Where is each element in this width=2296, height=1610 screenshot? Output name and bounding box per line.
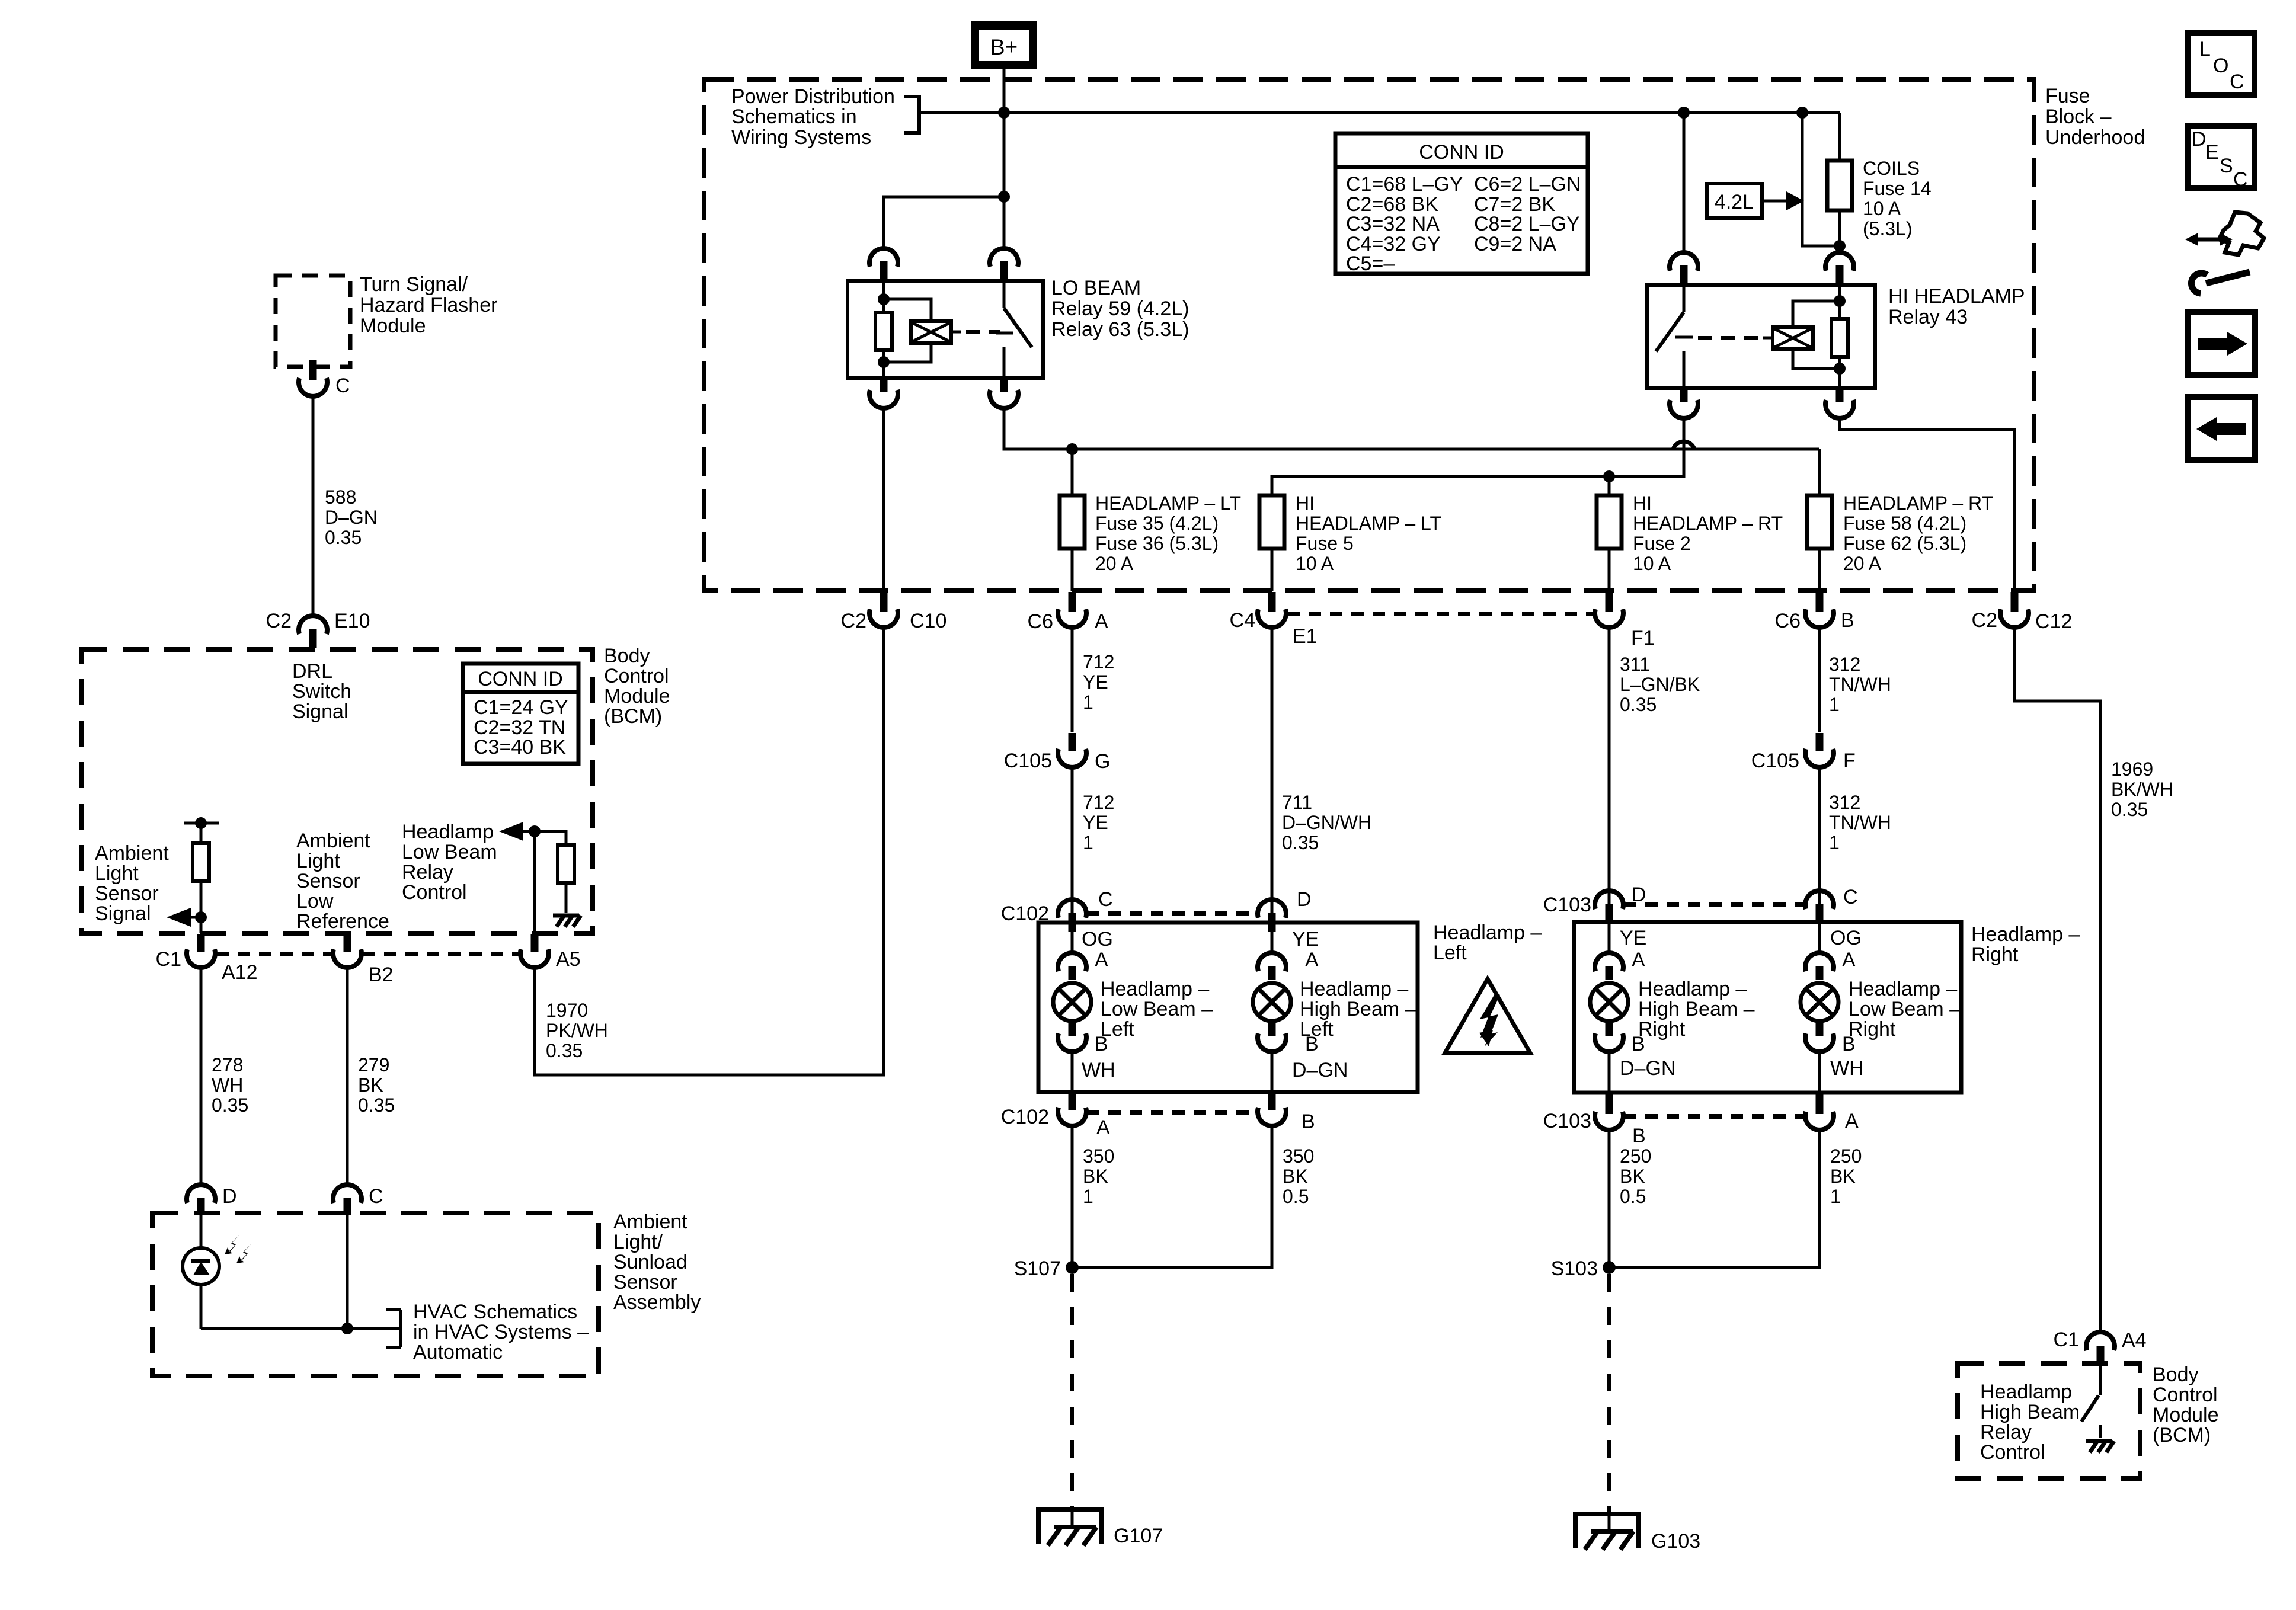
svg-text:C6: C6 <box>1775 610 1801 632</box>
label 350 BK 1 <box>1083 1145 1114 1207</box>
svg-text:High Beam –: High Beam – <box>1638 998 1755 1020</box>
wire 250 BK 0.5 <box>1608 1131 1611 1267</box>
svg-text:(BCM): (BCM) <box>604 705 662 728</box>
label Headlamp - Right <box>1971 923 2080 966</box>
svg-text:Headlamp –: Headlamp – <box>1101 978 1209 1000</box>
svg-text:350: 350 <box>1083 1145 1114 1167</box>
svg-text:B: B <box>1842 1033 1856 1055</box>
wire 312 segment 2 <box>1818 769 1821 904</box>
wire 278 WH 0.35 <box>200 969 203 1184</box>
svg-text:OG: OG <box>1830 927 1862 949</box>
connector C105 F <box>1751 733 1856 772</box>
wire fuse 2 stub <box>1608 476 1611 495</box>
svg-text:278: 278 <box>212 1054 243 1076</box>
label 712 YE 1 lower <box>1083 792 1114 853</box>
svg-text:312: 312 <box>1829 792 1860 813</box>
ground BCM high beam internal <box>2086 1441 2114 1452</box>
svg-text:BK: BK <box>1620 1166 1645 1187</box>
connector LO relay pin 2 top <box>990 248 1018 279</box>
node S107 <box>1014 1257 1079 1280</box>
node HI coil bottom <box>1834 363 1846 375</box>
svg-text:PK/WH: PK/WH <box>546 1020 608 1041</box>
label 350 BK 0.5 <box>1283 1145 1314 1207</box>
svg-text:S: S <box>2220 155 2233 177</box>
connector lamp B high-left <box>1258 1022 1319 1092</box>
svg-text:C: C <box>2233 168 2248 191</box>
svg-text:DRL: DRL <box>292 660 332 683</box>
svg-text:(5.3L): (5.3L) <box>1863 218 1913 239</box>
label Headlamp - Low Beam - Right <box>1849 978 1961 1041</box>
node HI coil top <box>1834 295 1846 307</box>
svg-text:A: A <box>1096 1116 1110 1139</box>
svg-text:A: A <box>1095 949 1108 971</box>
svg-text:F: F <box>1843 750 1856 772</box>
svg-text:YE: YE <box>1083 812 1108 833</box>
lamp Headlamp Low Beam Left <box>1053 983 1091 1021</box>
fuse block underhood dashed box <box>704 79 2034 591</box>
connector lamp B low-left <box>1058 1022 1108 1092</box>
svg-text:0.5: 0.5 <box>1283 1186 1309 1207</box>
svg-text:712: 712 <box>1083 651 1114 673</box>
label fuse 5 <box>1296 492 1441 574</box>
svg-text:C105: C105 <box>1751 750 1799 772</box>
svg-text:Switch: Switch <box>292 680 351 703</box>
svg-text:C2: C2 <box>266 610 292 632</box>
svg-text:Block –: Block – <box>2045 105 2112 128</box>
wire coils fuse bottom <box>1838 210 1841 251</box>
wire HI switch output to headlamp fuses <box>1272 419 1684 495</box>
wire B+ drop <box>1003 69 1006 113</box>
connector C103 C <box>1805 886 1858 924</box>
wire 588 D-GN 0.35 <box>312 398 315 614</box>
label Power Distribution Schematics in Wiring Systems <box>731 85 895 149</box>
node rail junction coils bypass <box>1796 107 1808 119</box>
svg-text:HI HEADLAMP: HI HEADLAMP <box>1888 285 2025 308</box>
svg-text:G: G <box>1095 750 1110 773</box>
connector B2 <box>333 934 394 986</box>
resistor ambient light sensor pullup <box>184 817 219 933</box>
svg-text:HEADLAMP – LT: HEADLAMP – LT <box>1296 513 1441 534</box>
fuse HEADLAMP-RT Fuse 58/62 <box>1807 449 1832 591</box>
svg-text:0.35: 0.35 <box>212 1094 248 1116</box>
svg-text:BK/WH: BK/WH <box>2111 779 2173 800</box>
svg-text:C5=–: C5=– <box>1346 252 1395 275</box>
connector C1/A4 <box>2054 1329 2147 1363</box>
svg-text:C3=40 BK: C3=40 BK <box>474 736 566 758</box>
wire 311 segment <box>1608 629 1611 904</box>
label Body Control Module (BCM) lower <box>2153 1363 2219 1446</box>
svg-text:Ambient: Ambient <box>95 842 169 865</box>
svg-text:C: C <box>1098 888 1113 911</box>
svg-text:Left: Left <box>1433 942 1467 964</box>
wire dashed E1 to F1 <box>1287 612 1594 616</box>
connector lamp A high-left <box>1258 932 1319 980</box>
wire dashed C102 C to D <box>1087 911 1256 916</box>
svg-text:Ambient: Ambient <box>296 830 370 852</box>
svg-text:C1=24 GY: C1=24 GY <box>474 696 568 719</box>
connector C sunload <box>333 1185 383 1215</box>
fuse COILS Fuse 14 <box>1827 161 1852 210</box>
connector C6/B right <box>1775 592 1854 632</box>
wire 350 BK 0.5 <box>1072 1127 1272 1267</box>
turn signal hazard flasher module box <box>276 276 350 367</box>
node rail junction HI switch feed <box>1678 107 1690 119</box>
connector C2/C10 <box>841 592 947 632</box>
svg-text:TN/WH: TN/WH <box>1829 674 1891 695</box>
svg-text:0.35: 0.35 <box>325 527 362 548</box>
svg-text:B: B <box>1632 1125 1646 1147</box>
label 588 D-GN 0.35 <box>325 486 378 548</box>
svg-text:Relay: Relay <box>1980 1421 2032 1443</box>
connector HI relay pin 2 bottom <box>1825 390 1854 418</box>
svg-text:Fuse 58 (4.2L): Fuse 58 (4.2L) <box>1843 513 1966 534</box>
svg-text:Module: Module <box>604 685 670 708</box>
wire 250 BK 1 <box>1609 1131 1819 1267</box>
svg-text:Low Beam: Low Beam <box>402 841 497 863</box>
label COILS Fuse 14 10 A (5.3L) <box>1863 158 1932 239</box>
svg-text:BK: BK <box>1083 1166 1108 1187</box>
svg-text:C9=2 NA: C9=2 NA <box>1474 233 1556 255</box>
label fuse 35/36 <box>1095 492 1241 574</box>
svg-text:E1: E1 <box>1293 625 1318 648</box>
connector LO relay pin 1 top <box>869 248 898 279</box>
svg-text:LO BEAM: LO BEAM <box>1051 277 1141 299</box>
svg-text:Relay 63 (5.3L): Relay 63 (5.3L) <box>1051 318 1189 341</box>
wire LO relay actuator dashed <box>966 330 1000 334</box>
wire HI relay actuator dashed <box>1698 336 1763 340</box>
CONN ID table (fuse block) <box>1335 133 1588 275</box>
relay LO BEAM box <box>848 281 1043 378</box>
label Fuse Block - Underhood <box>2045 85 2145 149</box>
svg-text:BK: BK <box>358 1074 383 1096</box>
svg-text:D–GN/WH: D–GN/WH <box>1282 812 1371 833</box>
svg-text:C4: C4 <box>1230 609 1255 632</box>
svg-text:in HVAC Systems –: in HVAC Systems – <box>413 1321 589 1343</box>
svg-text:Control: Control <box>1980 1441 2045 1464</box>
connector C turn signal <box>299 360 350 397</box>
headlamp left box <box>1038 923 1418 1092</box>
connector C1/A12 <box>156 934 258 984</box>
connector C102 B <box>1258 1093 1315 1133</box>
photodiode ambient light sensor <box>183 1215 219 1329</box>
svg-text:A5: A5 <box>556 948 581 971</box>
svg-text:Light: Light <box>95 862 139 885</box>
svg-text:HEADLAMP – RT: HEADLAMP – RT <box>1843 492 1993 514</box>
label Headlamp - Left <box>1433 921 1542 964</box>
svg-text:Headlamp: Headlamp <box>402 821 494 843</box>
svg-text:712: 712 <box>1083 792 1114 813</box>
svg-text:Headlamp –: Headlamp – <box>1971 923 2080 946</box>
label 1970 PK/WH 0.35 <box>546 1000 608 1061</box>
lamp Headlamp Low Beam Right <box>1801 983 1838 1021</box>
svg-text:B: B <box>1305 1033 1319 1055</box>
connector C103 A <box>1805 1094 1859 1132</box>
svg-text:20 A: 20 A <box>1843 553 1882 574</box>
svg-text:C1: C1 <box>2054 1329 2079 1351</box>
svg-text:Automatic: Automatic <box>413 1341 503 1363</box>
label fuse 2 <box>1633 492 1783 574</box>
connector A5 <box>520 934 581 971</box>
svg-text:L: L <box>2199 38 2211 60</box>
svg-text:10 A: 10 A <box>1633 553 1671 574</box>
B+ battery feed box <box>975 25 1033 65</box>
body control module dashed box <box>81 649 593 933</box>
svg-text:A: A <box>1842 949 1856 971</box>
connector LO relay pin 2 bottom <box>990 380 1018 408</box>
svg-text:Control: Control <box>2153 1384 2218 1406</box>
connector HI relay pin 2 top <box>1825 252 1854 283</box>
svg-text:Sensor: Sensor <box>95 882 159 905</box>
label 711 D-GN/WH 0.35 <box>1282 792 1371 853</box>
wire HI switch feed <box>1683 113 1686 251</box>
svg-text:Fuse: Fuse <box>2045 85 2090 107</box>
svg-text:TN/WH: TN/WH <box>1829 812 1891 833</box>
svg-text:250: 250 <box>1830 1145 1862 1167</box>
fuse HI HEADLAMP-RT Fuse 2 <box>1597 495 1622 591</box>
svg-text:0.35: 0.35 <box>1620 694 1657 715</box>
svg-text:C1=68 L–GY: C1=68 L–GY <box>1346 173 1463 196</box>
svg-text:C1: C1 <box>156 948 181 971</box>
svg-text:D: D <box>222 1185 237 1208</box>
wire 350 BK 1 <box>1071 1127 1074 1267</box>
label Ambient Light/Sunload Sensor Assembly <box>613 1211 701 1314</box>
svg-text:C: C <box>1843 886 1858 908</box>
node rail junction at B+ <box>998 107 1010 119</box>
BCM high beam control dashed box <box>1958 1363 2140 1478</box>
connector C102 A <box>1001 1093 1110 1139</box>
connector C105 G <box>1004 733 1111 773</box>
node LO coil bottom <box>878 356 890 368</box>
svg-text:Low Beam –: Low Beam – <box>1101 998 1213 1020</box>
label HVAC Schematics in HVAC Systems - Automatic <box>413 1301 589 1363</box>
icon DESC box <box>2188 126 2255 191</box>
svg-text:G103: G103 <box>1651 1530 1700 1553</box>
icon harness wrench <box>2185 212 2264 293</box>
connector lamp A high-right <box>1595 924 1645 980</box>
connector LO relay pin 1 bottom <box>869 380 898 408</box>
bracket HVAC reference <box>386 1310 401 1347</box>
svg-text:C10: C10 <box>910 610 946 632</box>
ground G107 <box>1036 1507 1163 1547</box>
svg-text:711: 711 <box>1282 792 1312 813</box>
svg-text:Underhood: Underhood <box>2045 126 2145 149</box>
relay HI HEADLAMP box <box>1647 285 1875 388</box>
wire 1970 PK/WH 0.35 <box>535 629 884 1075</box>
wire LO relay coil branch <box>884 197 1004 248</box>
svg-text:D–GN: D–GN <box>325 507 378 528</box>
svg-text:1969: 1969 <box>2111 758 2153 780</box>
wire dashed to G103 <box>1607 1274 1611 1512</box>
svg-text:Control: Control <box>402 881 467 904</box>
wire C to common <box>346 1215 349 1329</box>
label 312 TN/WH 1 upper <box>1829 654 1891 715</box>
svg-text:B: B <box>1302 1110 1315 1133</box>
connector C2/E10 <box>266 610 370 648</box>
svg-text:Right: Right <box>1638 1018 1686 1041</box>
label DRL Switch Signal <box>292 660 351 723</box>
fuse HI HEADLAMP-LT Fuse 5 <box>1259 495 1284 591</box>
lamp Headlamp High Beam Left <box>1253 983 1291 1021</box>
svg-text:Fuse 5: Fuse 5 <box>1296 533 1354 554</box>
label HI HEADLAMP Relay 43 <box>1888 285 2025 328</box>
connector C6/A left <box>1028 592 1108 633</box>
label Headlamp - Low Beam - Left <box>1101 978 1213 1041</box>
svg-text:(BCM): (BCM) <box>2153 1424 2211 1446</box>
label 278 WH 0.35 <box>212 1054 248 1116</box>
resistor LO relay coil suppressor <box>875 281 892 378</box>
svg-text:YE: YE <box>1083 671 1108 693</box>
svg-text:Headlamp –: Headlamp – <box>1849 978 1957 1000</box>
light arrows into photodiode <box>225 1235 251 1263</box>
label Turn Signal/Hazard Flasher Module <box>360 273 497 337</box>
svg-text:Reference: Reference <box>296 910 389 933</box>
svg-text:C2: C2 <box>841 610 866 632</box>
svg-text:D–GN: D–GN <box>1292 1059 1348 1081</box>
svg-text:F1: F1 <box>1631 627 1655 649</box>
svg-text:HVAC Schematics: HVAC Schematics <box>413 1301 577 1323</box>
svg-text:B+: B+ <box>990 35 1018 59</box>
ground G103 <box>1573 1512 1700 1553</box>
svg-text:B: B <box>1095 1033 1108 1055</box>
svg-text:B: B <box>1841 609 1854 632</box>
arrow ambient light sensor signal <box>167 908 207 927</box>
resistor HI relay coil suppressor <box>1831 285 1848 388</box>
connector HI relay pin 1 top <box>1670 252 1698 283</box>
wire hop over at HI beam feed crossing <box>1673 441 1694 449</box>
label fuse 58/62 <box>1843 492 1993 574</box>
svg-text:OG: OG <box>1082 928 1113 950</box>
svg-text:Module: Module <box>360 315 426 337</box>
svg-text:Module: Module <box>2153 1404 2219 1426</box>
wire 312 segment 1 <box>1818 629 1821 732</box>
wire 1969 BK/WH 0.35 <box>2014 629 2100 1331</box>
wire 712 segment 1 <box>1071 629 1074 732</box>
svg-text:C: C <box>369 1185 383 1208</box>
svg-text:Power Distribution: Power Distribution <box>731 85 895 108</box>
svg-text:HI: HI <box>1633 492 1652 514</box>
svg-text:0.35: 0.35 <box>358 1094 395 1116</box>
svg-text:D: D <box>1297 888 1312 911</box>
connector lamp A low-left <box>1058 932 1108 980</box>
svg-text:HEADLAMP – RT: HEADLAMP – RT <box>1633 513 1783 534</box>
wire 712 segment 2 <box>1071 769 1074 913</box>
wire coils bypass <box>1802 113 1840 246</box>
connector C103 B <box>1543 1094 1646 1147</box>
svg-text:BK: BK <box>1830 1166 1856 1187</box>
svg-text:Right: Right <box>1971 943 2019 966</box>
label 712 YE 1 upper <box>1083 651 1114 713</box>
svg-text:Right: Right <box>1849 1018 1896 1041</box>
svg-text:A: A <box>1632 949 1645 971</box>
connector lamp B high-right <box>1595 1022 1645 1093</box>
label 311 L-GN/BK 0.35 <box>1620 654 1700 715</box>
svg-text:0.5: 0.5 <box>1620 1186 1646 1207</box>
wire dashed to G107 <box>1070 1274 1074 1508</box>
svg-text:L–GN/BK: L–GN/BK <box>1620 674 1700 695</box>
svg-text:High Beam –: High Beam – <box>1300 998 1416 1020</box>
node coils fuse bottom junction <box>1834 240 1846 252</box>
svg-text:Assembly: Assembly <box>613 1291 701 1314</box>
svg-text:S103: S103 <box>1551 1257 1598 1280</box>
svg-text:Hazard Flasher: Hazard Flasher <box>360 294 497 316</box>
svg-text:A4: A4 <box>2122 1329 2147 1352</box>
node sensor common junction <box>341 1323 353 1334</box>
svg-text:Sensor: Sensor <box>296 870 360 892</box>
resistor BCM low beam driver <box>535 831 574 913</box>
wire LO relay feed <box>1003 113 1006 248</box>
svg-text:A: A <box>1095 610 1108 633</box>
label Ambient Light Sensor Low Reference <box>296 830 389 933</box>
label 1969 BK/WH 0.35 <box>2111 758 2173 820</box>
wire LO switch output <box>1004 409 1819 449</box>
svg-text:4.2L: 4.2L <box>1715 191 1754 213</box>
headlamp right box <box>1574 922 1961 1093</box>
svg-text:Headlamp –: Headlamp – <box>1433 921 1542 944</box>
svg-text:C: C <box>2230 71 2244 93</box>
svg-text:D: D <box>2192 128 2207 151</box>
svg-text:HEADLAMP – LT: HEADLAMP – LT <box>1095 492 1241 514</box>
svg-text:YE: YE <box>1292 928 1319 950</box>
svg-text:1: 1 <box>1830 1186 1841 1207</box>
svg-text:Ambient: Ambient <box>613 1211 687 1233</box>
svg-text:Relay 59 (4.2L): Relay 59 (4.2L) <box>1051 297 1189 320</box>
svg-text:Body: Body <box>604 645 650 667</box>
icon arrow left box <box>2188 397 2255 460</box>
svg-text:0.35: 0.35 <box>1282 832 1319 853</box>
label Ambient Light Sensor Signal <box>95 842 169 925</box>
wire 711 feed <box>1271 629 1274 913</box>
wire 279 BK 0.35 <box>346 969 349 1184</box>
connector C102 C <box>1001 888 1113 932</box>
svg-text:0.35: 0.35 <box>546 1040 583 1061</box>
svg-text:CONN ID: CONN ID <box>1419 141 1504 164</box>
connector C4/E1 <box>1230 592 1318 648</box>
svg-text:Control: Control <box>604 665 669 687</box>
connector lamp A low-right <box>1805 924 1856 980</box>
switch LO relay contact <box>996 281 1032 378</box>
svg-text:High Beam: High Beam <box>1980 1401 2080 1423</box>
node S103 <box>1551 1257 1616 1280</box>
fuse HEADLAMP-LT Fuse 35/36 <box>1060 449 1085 591</box>
svg-text:Signal: Signal <box>95 902 151 925</box>
svg-text:S107: S107 <box>1014 1257 1061 1280</box>
svg-text:C105: C105 <box>1004 750 1052 772</box>
svg-text:A: A <box>1845 1110 1859 1132</box>
ambient light sunload sensor assembly box <box>152 1213 599 1376</box>
label Headlamp High Beam Relay Control <box>1980 1381 2080 1464</box>
svg-text:Signal: Signal <box>292 700 348 723</box>
coil LO relay winding <box>884 299 961 362</box>
switch HI relay contact <box>1656 285 1693 388</box>
svg-text:WH: WH <box>1830 1057 1864 1080</box>
svg-text:Fuse 2: Fuse 2 <box>1633 533 1691 554</box>
svg-text:Light: Light <box>296 850 340 872</box>
svg-text:C8=2 L–GY: C8=2 L–GY <box>1474 213 1580 235</box>
svg-text:Schematics in: Schematics in <box>731 105 857 128</box>
svg-text:Fuse 36 (5.3L): Fuse 36 (5.3L) <box>1095 533 1219 554</box>
svg-text:Relay 43: Relay 43 <box>1888 306 1968 328</box>
node LO coil top <box>878 293 890 305</box>
svg-text:D–GN: D–GN <box>1620 1057 1675 1080</box>
svg-text:O: O <box>2213 55 2228 77</box>
svg-text:1: 1 <box>1083 692 1093 713</box>
wire HI coil output to C12 <box>1840 419 2014 591</box>
svg-text:WH: WH <box>1082 1059 1115 1081</box>
svg-text:C3=32 NA: C3=32 NA <box>1346 213 1440 235</box>
svg-text:C: C <box>335 375 350 397</box>
svg-text:20 A: 20 A <box>1095 553 1134 574</box>
svg-text:B: B <box>1632 1033 1645 1055</box>
